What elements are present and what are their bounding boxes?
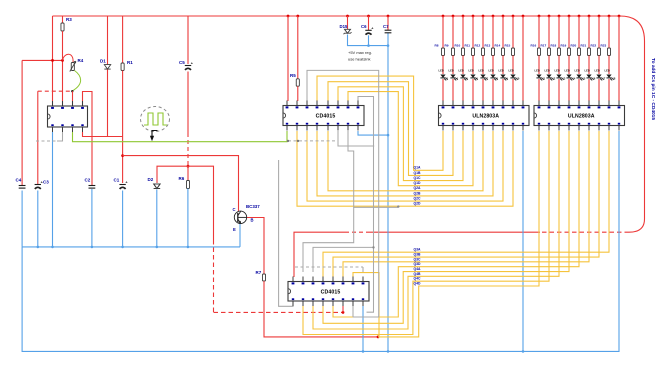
svg-text:Q2B: Q2B [414, 191, 422, 195]
svg-text:LED: LED [439, 69, 444, 73]
svg-text:R16: R16 [531, 43, 537, 47]
svg-text:D6: D6 [475, 76, 479, 80]
svg-text:use heatsink: use heatsink [348, 57, 370, 62]
svg-text:D9: D9 [505, 76, 509, 80]
svg-text:LED: LED [555, 69, 560, 73]
svg-text:R20: R20 [571, 43, 577, 47]
svg-text:R5: R5 [290, 73, 296, 78]
svg-text:CD4015: CD4015 [321, 289, 341, 295]
svg-text:Q3A: Q3A [414, 248, 422, 252]
svg-text:LED: LED [459, 69, 464, 73]
svg-text:R15: R15 [505, 43, 511, 47]
svg-text:D3: D3 [445, 76, 449, 80]
svg-text:D14: D14 [571, 76, 576, 80]
svg-text:ULN2803A: ULN2803A [472, 114, 499, 120]
svg-text:LED: LED [479, 69, 484, 73]
svg-text:R13: R13 [485, 43, 491, 47]
svg-text:D13: D13 [561, 76, 566, 80]
svg-text:Q2C: Q2C [414, 196, 422, 200]
svg-text:R11: R11 [465, 43, 471, 47]
svg-text:R22: R22 [591, 43, 597, 47]
svg-text:D10: D10 [515, 76, 520, 80]
svg-text:D1: D1 [100, 59, 106, 64]
svg-text:C1: C1 [114, 178, 120, 183]
svg-text:D2: D2 [148, 177, 154, 182]
svg-text:D11: D11 [541, 76, 546, 80]
svg-text:C7: C7 [383, 24, 389, 29]
svg-text:D15: D15 [581, 76, 586, 80]
svg-text:C5: C5 [179, 60, 185, 65]
svg-text:LED: LED [509, 69, 514, 73]
svg-text:D16: D16 [591, 76, 596, 80]
svg-text:Q3D: Q3D [414, 262, 422, 266]
svg-text:Q4A: Q4A [414, 267, 422, 271]
svg-text:Q1C: Q1C [414, 176, 422, 180]
svg-text:C6: C6 [361, 24, 367, 29]
svg-text:R9: R9 [445, 43, 449, 47]
svg-text:LED: LED [605, 69, 610, 73]
svg-text:R19: R19 [561, 43, 567, 47]
svg-text:Q4C: Q4C [414, 277, 422, 281]
svg-text:Q1D: Q1D [414, 181, 422, 185]
svg-text:C2: C2 [85, 178, 91, 183]
svg-text:ULN2803A: ULN2803A [568, 114, 595, 120]
svg-text:R4: R4 [78, 58, 84, 63]
svg-text:D15: D15 [340, 24, 348, 29]
svg-text:C: C [233, 207, 236, 212]
svg-text:C3: C3 [43, 179, 49, 184]
svg-text:BC337: BC337 [246, 204, 260, 209]
svg-text:R23: R23 [601, 43, 607, 47]
svg-text:Q4B: Q4B [414, 272, 422, 276]
svg-text:LED: LED [489, 69, 494, 73]
svg-text:R12: R12 [475, 43, 481, 47]
svg-text:LED: LED [545, 69, 550, 73]
svg-text:LED: LED [535, 69, 540, 73]
svg-text:LED: LED [469, 69, 474, 73]
svg-text:R18: R18 [551, 43, 557, 47]
svg-text:R17: R17 [541, 43, 547, 47]
svg-text:LED: LED [565, 69, 570, 73]
svg-text:Q1B: Q1B [414, 171, 422, 175]
svg-text:R6: R6 [179, 176, 185, 181]
svg-text:To add ICs pin 1C - CD4015: To add ICs pin 1C - CD4015 [650, 58, 656, 120]
svg-text:R7: R7 [256, 270, 262, 275]
svg-text:R21: R21 [581, 43, 587, 47]
svg-text:R1: R1 [127, 60, 133, 65]
svg-text:D17: D17 [601, 76, 606, 80]
svg-text:LED: LED [585, 69, 590, 73]
svg-text:Q2D: Q2D [414, 202, 422, 206]
svg-text:Q1A: Q1A [414, 166, 422, 170]
svg-text:Q3C: Q3C [414, 257, 422, 261]
svg-text:R8: R8 [435, 43, 439, 47]
svg-text:D5: D5 [465, 76, 469, 80]
svg-text:D12: D12 [551, 76, 556, 80]
svg-text:D18: D18 [611, 76, 616, 80]
svg-text:R3: R3 [66, 17, 72, 22]
svg-text:LED: LED [499, 69, 504, 73]
svg-text:D4: D4 [455, 76, 459, 80]
svg-text:Q3B: Q3B [414, 252, 422, 256]
svg-text:E: E [233, 227, 236, 232]
svg-text:C4: C4 [16, 178, 22, 183]
svg-text:LED: LED [449, 69, 454, 73]
svg-text:R14: R14 [495, 43, 501, 47]
svg-text:Q4D: Q4D [414, 281, 422, 285]
svg-text:+5V max reg.: +5V max reg. [348, 50, 372, 55]
svg-text:D7: D7 [485, 76, 489, 80]
svg-text:R10: R10 [455, 43, 461, 47]
svg-text:B: B [251, 218, 254, 223]
svg-text:LED: LED [575, 69, 580, 73]
svg-text:D8: D8 [495, 76, 499, 80]
svg-text:Q2A: Q2A [414, 186, 422, 190]
svg-text:CD4015: CD4015 [316, 114, 336, 120]
svg-text:LED: LED [595, 69, 600, 73]
